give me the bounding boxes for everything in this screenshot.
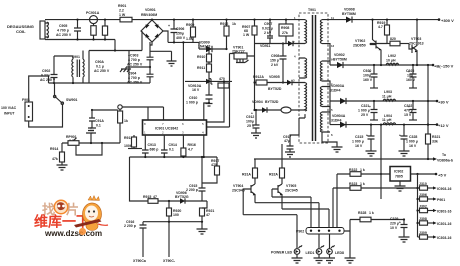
filter loop box (89, 51, 150, 84)
secondary winding 4 (320, 112, 322, 132)
pin4 down (203, 135, 205, 157)
svg-text:11 μH: 11 μH (382, 95, 392, 99)
svg-text:AC 250 V: AC 250 V (127, 81, 143, 85)
connector feeds (349, 220, 351, 259)
svg-text:C912: C912 (246, 115, 254, 119)
svg-text:R908: R908 (281, 26, 289, 30)
svg-text:C315: C315 (355, 135, 363, 139)
svg-text:2SD850: 2SD850 (353, 44, 366, 48)
svg-text:IC901 UC3842: IC901 UC3842 (155, 127, 178, 131)
svg-text:VD911: VD911 (260, 44, 271, 48)
svg-text:R914: R914 (50, 147, 58, 151)
zener VD910 line (185, 80, 232, 82)
primary winding 2 (305, 58, 307, 78)
ground (285, 152, 295, 157)
svg-text:1 000 μ: 1 000 μ (406, 140, 418, 144)
svg-text:VT902: VT902 (355, 39, 365, 43)
AC input section (1, 40, 154, 128)
bridge top to rail (151, 19, 153, 21)
pin 7 wire up (163, 107, 165, 120)
svg-text:VD905: VD905 (269, 75, 280, 79)
svg-text:+300 V: +300 V (441, 18, 454, 23)
wire VT905 base down (271, 189, 273, 197)
VT901 drain-source column (254, 44, 256, 111)
ground (395, 186, 406, 191)
wire staircase 3 (282, 209, 329, 228)
chassis ground (120, 67, 150, 72)
secondary bottom pin to ground (322, 132, 337, 147)
svg-text:C914: C914 (169, 143, 177, 147)
svg-text:C904: C904 (128, 72, 136, 76)
secondary winding 2 (320, 61, 322, 81)
wire bottom degauss rail y=39.5 (45, 39, 115, 41)
jumper branches section (333, 174, 451, 242)
svg-text:VD904A: VD904A (332, 114, 346, 118)
svg-text:+30 V: +30 V (438, 100, 449, 105)
svg-text:VD903A: VD903A (331, 84, 345, 88)
ground (251, 133, 261, 138)
svg-text:VD901: VD901 (145, 8, 156, 12)
bridge left vertex down to filter box (141, 31, 143, 51)
svg-text:1 000 μ: 1 000 μ (358, 109, 370, 113)
svg-text:2SC1913: 2SC1913 (409, 42, 424, 46)
svg-text:C902: C902 (42, 69, 50, 73)
ground (399, 237, 410, 242)
svg-text:AC 250 V: AC 250 V (94, 69, 110, 73)
svg-text:+12 V: +12 V (438, 123, 449, 128)
svg-text:C907: C907 (264, 22, 272, 26)
svg-text:2 kV: 2 kV (264, 31, 272, 35)
svg-text:IC303-16: IC303-16 (437, 236, 451, 240)
svg-text:1 000 μ: 1 000 μ (352, 140, 364, 144)
ground (366, 151, 377, 156)
svg-text:C90A: C90A (95, 60, 104, 64)
svg-text:+: + (366, 134, 368, 138)
wire staircase 1 (272, 197, 311, 228)
svg-text:1 W: 1 W (119, 13, 126, 17)
svg-text:IC301-16: IC301-16 (437, 222, 451, 226)
svg-text:10 V: 10 V (390, 226, 398, 230)
svg-text:C913: C913 (148, 143, 156, 147)
svg-text:13: 13 (331, 44, 335, 48)
svg-text:160 V: 160 V (363, 78, 373, 82)
svg-text:+: + (369, 70, 371, 74)
wire staircase 2 (255, 203, 319, 228)
svg-text:R321: R321 (432, 135, 440, 139)
svg-text:P902: P902 (296, 230, 304, 234)
svg-text:COIL: COIL (16, 29, 26, 34)
svg-text:2 kV: 2 kV (271, 63, 279, 67)
svg-text:LED8: LED8 (335, 251, 344, 255)
svg-text:7805: 7805 (395, 175, 403, 179)
svg-text:+C903: +C903 (128, 54, 138, 58)
wire Vcc to IC (207, 81, 225, 122)
small resistor R902 (118, 111, 123, 123)
filter bottom line (49, 82, 90, 84)
feedback section (50, 128, 220, 263)
svg-text:100 V/AC: 100 V/AC (1, 106, 17, 110)
svg-text:VD806a-b: VD806a-b (437, 159, 453, 163)
svg-text:LED1: LED1 (306, 251, 315, 255)
svg-text:100μ: 100μ (363, 74, 371, 78)
svg-text:16 V: 16 V (409, 144, 417, 148)
svg-text:P901: P901 (437, 198, 445, 202)
primary winding 1 (305, 20, 307, 44)
svg-text:2 200 p: 2 200 p (186, 188, 198, 192)
+5V out (411, 173, 437, 175)
svg-text:C908: C908 (271, 54, 279, 58)
degaussing coil connector (40, 21, 49, 39)
svg-text:BYT52D: BYT52D (265, 100, 279, 104)
+300V rail (330, 19, 438, 21)
svg-text:+: + (399, 221, 401, 225)
secondary winding 1 (320, 20, 322, 44)
capacitor C91A (92, 109, 118, 111)
svg-text:0.022μ: 0.022μ (262, 27, 273, 31)
degauss drop (114, 40, 116, 51)
svg-text:XT90C-: XT90C- (163, 259, 176, 263)
svg-text:INPUT: INPUT (4, 112, 15, 116)
transformer section (283, 8, 343, 157)
svg-text:T901: T901 (308, 8, 316, 12)
base line (370, 44, 387, 45)
svg-text:IC801-16: IC801-16 (437, 210, 451, 214)
svg-text:C910: C910 (189, 96, 197, 100)
bridge rectifier section (141, 8, 236, 81)
svg-text:680 p: 680 p (150, 148, 159, 152)
svg-text:C905: C905 (59, 24, 67, 28)
ground (57, 165, 68, 170)
watermark logo (34, 196, 108, 239)
svg-text:R901: R901 (118, 4, 126, 8)
svg-text:R32A: R32A (269, 173, 278, 177)
cap C918 (86, 128, 96, 143)
lower bus y148.5 (128, 148, 142, 150)
IC901 UC3842 (143, 120, 207, 135)
svg-text:VD904: VD904 (252, 100, 263, 104)
line y201 (130, 157, 208, 201)
primary winding 3 (305, 83, 307, 112)
svg-text:25 V: 25 V (361, 113, 369, 117)
svg-text:To: To (442, 153, 446, 157)
svg-text:820: 820 (390, 37, 396, 41)
svg-text:15 V: 15 V (404, 113, 412, 117)
svg-text:16 V: 16 V (355, 144, 363, 148)
svg-text:+: + (369, 105, 371, 109)
svg-text:BYT52D: BYT52D (268, 87, 282, 91)
logo circle (54, 200, 69, 215)
svg-text:100k: 100k (124, 144, 132, 148)
svg-text:+: + (408, 105, 410, 109)
svg-text:4 700 p: 4 700 p (128, 76, 140, 80)
svg-text:220 μ: 220 μ (390, 222, 399, 226)
lower bus y157 (130, 156, 218, 158)
+12V rail (330, 124, 437, 126)
svg-text:1k: 1k (124, 119, 128, 123)
svg-text:2.2: 2.2 (119, 9, 124, 13)
svg-text:IC903-16: IC903-16 (437, 187, 451, 191)
inductor bead (281, 107, 291, 113)
svg-text:R916: R916 (188, 143, 196, 147)
svg-text:PC901A: PC901A (86, 11, 100, 15)
svg-text:+: + (168, 24, 170, 28)
svg-text:11 μH: 11 μH (382, 118, 392, 122)
svg-text:1 W: 1 W (243, 33, 250, 37)
svg-text:VD902: VD902 (334, 53, 345, 57)
ground (399, 151, 410, 156)
svg-text:SW901: SW901 (66, 98, 78, 102)
wire fuse bottom to switch (29, 104, 63, 127)
primary minus line y42.4 (168, 41, 199, 43)
svg-text:160 V: 160 V (406, 78, 416, 82)
svg-text:R911: R911 (197, 66, 205, 70)
svg-text:R328: R328 (358, 211, 366, 215)
pin 6 wire up (182, 42, 184, 120)
svg-text:27k: 27k (282, 31, 288, 35)
+12 feed down (380, 125, 382, 199)
LED indicator section (232, 144, 356, 263)
resistor R31A (254, 158, 283, 160)
svg-text:400 V: 400 V (176, 36, 186, 40)
svg-text:100: 100 (173, 213, 179, 217)
svg-text:10 μH: 10 μH (386, 59, 396, 63)
svg-text:R912A: R912A (253, 75, 264, 79)
PWM controller section (88, 41, 217, 158)
ground (197, 229, 208, 234)
svg-text:2SC945: 2SC945 (285, 189, 298, 193)
svg-text:BYT52G: BYT52G (175, 195, 189, 199)
svg-text:31DF4: 31DF4 (330, 89, 341, 93)
secondary winding 3 (320, 87, 322, 107)
svg-text:L903: L903 (384, 90, 392, 94)
svg-text:POWER LED: POWER LED (271, 251, 293, 255)
5V regulator section (337, 124, 447, 228)
degaussing section (7, 4, 299, 41)
ground (332, 147, 343, 152)
resistor R921 (200, 208, 205, 216)
svg-text:150 p: 150 p (270, 59, 279, 63)
svg-text:维库一下: 维库一下 (34, 214, 90, 230)
resistor R920B (387, 43, 390, 45)
svg-text:+5 V: +5 V (438, 173, 447, 178)
svg-text:IC902: IC902 (394, 170, 403, 174)
branch bus (417, 174, 419, 237)
svg-text:4 700 p: 4 700 p (57, 29, 69, 33)
svg-text:R31A: R31A (242, 173, 251, 177)
svg-text:47: 47 (206, 213, 210, 217)
svg-text:VT904: VT904 (233, 184, 243, 188)
bridge right vertex up to rail (162, 31, 168, 42)
snubber R908 (279, 24, 293, 36)
svg-text:BYT56M: BYT56M (333, 58, 347, 62)
pin3 down + R916 (182, 135, 184, 157)
wire VT904 base down (243, 189, 245, 215)
svg-text:VD908: VD908 (344, 8, 355, 12)
secondary outputs section (283, 8, 454, 163)
svg-text:4 700 p: 4 700 p (128, 58, 140, 62)
svg-text:+: + (408, 70, 410, 74)
svg-text:47k: 47k (52, 157, 58, 161)
svg-text:2 200 p: 2 200 p (124, 224, 136, 228)
svg-text:BYT56M: BYT56M (342, 12, 356, 16)
svg-text:RBV406M: RBV406M (141, 13, 157, 17)
bus y221.7 (143, 221, 202, 223)
gate wire to IC (207, 54, 235, 128)
svg-text:VT903: VT903 (411, 37, 421, 41)
+30V rail (330, 100, 437, 102)
svg-text:C329: C329 (390, 217, 398, 221)
svg-text:16 V: 16 V (192, 88, 200, 92)
svg-text:XT90Ca: XT90Ca (133, 259, 146, 263)
svg-text:1 k: 1 k (369, 211, 374, 215)
core (313, 15, 316, 141)
svg-text:0.22μ: 0.22μ (41, 74, 50, 78)
wire staircase 4 (243, 215, 297, 249)
svg-text:L902: L902 (388, 54, 396, 58)
svg-text:33k: 33k (432, 140, 438, 144)
svg-text:C328: C328 (409, 135, 417, 139)
+B rail (330, 64, 433, 66)
wire fuse top (29, 76, 49, 102)
svg-text:C91A: C91A (95, 119, 104, 123)
svg-text:0.1: 0.1 (169, 148, 174, 152)
LED 2 (327, 249, 333, 255)
To VD806 line (283, 158, 433, 160)
svg-text:+: + (399, 134, 401, 138)
svg-text:AC 250 V: AC 250 V (56, 33, 72, 37)
svg-text:R910: R910 (197, 55, 205, 59)
svg-text:47μ: 47μ (284, 139, 290, 143)
pin1 down + C913 (142, 135, 149, 157)
svg-text:+B(~150 V: +B(~150 V (434, 64, 454, 69)
svg-text:VT905: VT905 (286, 184, 296, 188)
svg-text:AC 250 V: AC 250 V (127, 63, 143, 67)
svg-text:1k: 1k (232, 22, 236, 26)
svg-text:4.7: 4.7 (188, 148, 193, 152)
pin 8 wire up (204, 103, 209, 120)
wire top rail y=19.6 (45, 19, 299, 21)
resistor R920 (167, 208, 172, 216)
svg-text:0.1 μ: 0.1 μ (96, 65, 104, 69)
pin2 down + C914 (161, 135, 168, 157)
svg-text:+: + (251, 112, 253, 116)
IC902 7805 (390, 167, 411, 182)
pin numbers (293, 16, 335, 137)
svg-text:31DF4: 31DF4 (331, 119, 342, 123)
mascot (74, 196, 108, 231)
bridge bottom to filter box (150, 42, 152, 45)
svg-text:0.1: 0.1 (96, 124, 101, 128)
ground (345, 258, 356, 263)
svg-text:1 000 p: 1 000 p (186, 101, 198, 105)
svg-text:100μ: 100μ (246, 120, 254, 124)
svg-text:R912: R912 (220, 22, 228, 26)
primary switching section (185, 19, 299, 139)
